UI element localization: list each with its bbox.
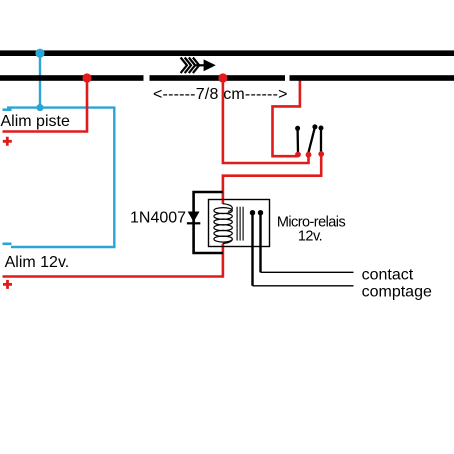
wire red right contact to coil top xyxy=(223,154,321,204)
svg-text:<------7/8 cm------>: <------7/8 cm------> xyxy=(153,86,288,103)
diode D1 branch wire xyxy=(194,192,223,253)
wire red rail2 to middle contact pole xyxy=(223,78,309,163)
terminal minus Alim piste xyxy=(3,108,12,111)
svg-text:comptage: comptage xyxy=(362,283,432,300)
terminal plus Alim 12v xyxy=(3,280,12,289)
relay pin contact lead 1 xyxy=(250,210,255,286)
wire red coil bottom to Alim 12v plus xyxy=(3,244,223,277)
diode D1 1N4007 symbol xyxy=(187,212,200,224)
terminal minus Alim 12v xyxy=(3,243,12,246)
terminal plus Alim piste xyxy=(3,137,12,146)
svg-text:Alim 12v.: Alim 12v. xyxy=(5,254,70,271)
relay K1 body box xyxy=(209,200,270,247)
rail 2 segment left xyxy=(0,75,144,81)
wire black to comptage label xyxy=(253,285,354,287)
svg-text:Alim piste: Alim piste xyxy=(1,113,70,130)
relay pin contact lead 2 xyxy=(258,210,263,272)
rail 2 segment middle xyxy=(150,75,286,81)
relay K1 core lines xyxy=(237,207,243,241)
wire red rail2 right segment to left contact xyxy=(273,80,300,156)
node red contact pole middle xyxy=(306,152,312,158)
contact left fixed xyxy=(295,126,300,153)
wire red Alim piste plus from rail2 xyxy=(3,78,88,132)
relay K1 coil xyxy=(214,204,232,244)
node red dot on rail2 left xyxy=(82,73,91,82)
node red contact pole right xyxy=(318,151,324,157)
svg-text:contact: contact xyxy=(362,267,414,284)
node blue dot on rail1 xyxy=(35,49,44,58)
wire black to contact label xyxy=(261,271,354,273)
contact right fixed xyxy=(319,126,324,153)
contact middle armature xyxy=(308,124,317,153)
arrow direction of travel xyxy=(181,58,216,74)
node blue junction xyxy=(36,104,43,111)
svg-text:1N4007: 1N4007 xyxy=(130,210,186,227)
node red contact pole left xyxy=(295,152,301,158)
rail 1 top track xyxy=(0,50,454,56)
svg-text:12v.: 12v. xyxy=(298,229,322,245)
wire blue Alim piste minus: rail1 drop xyxy=(39,53,41,108)
wire blue loop to Alim 12v minus xyxy=(7,108,114,247)
rail 2 segment right xyxy=(290,75,454,81)
node red dot on rail2 middle xyxy=(218,73,227,82)
